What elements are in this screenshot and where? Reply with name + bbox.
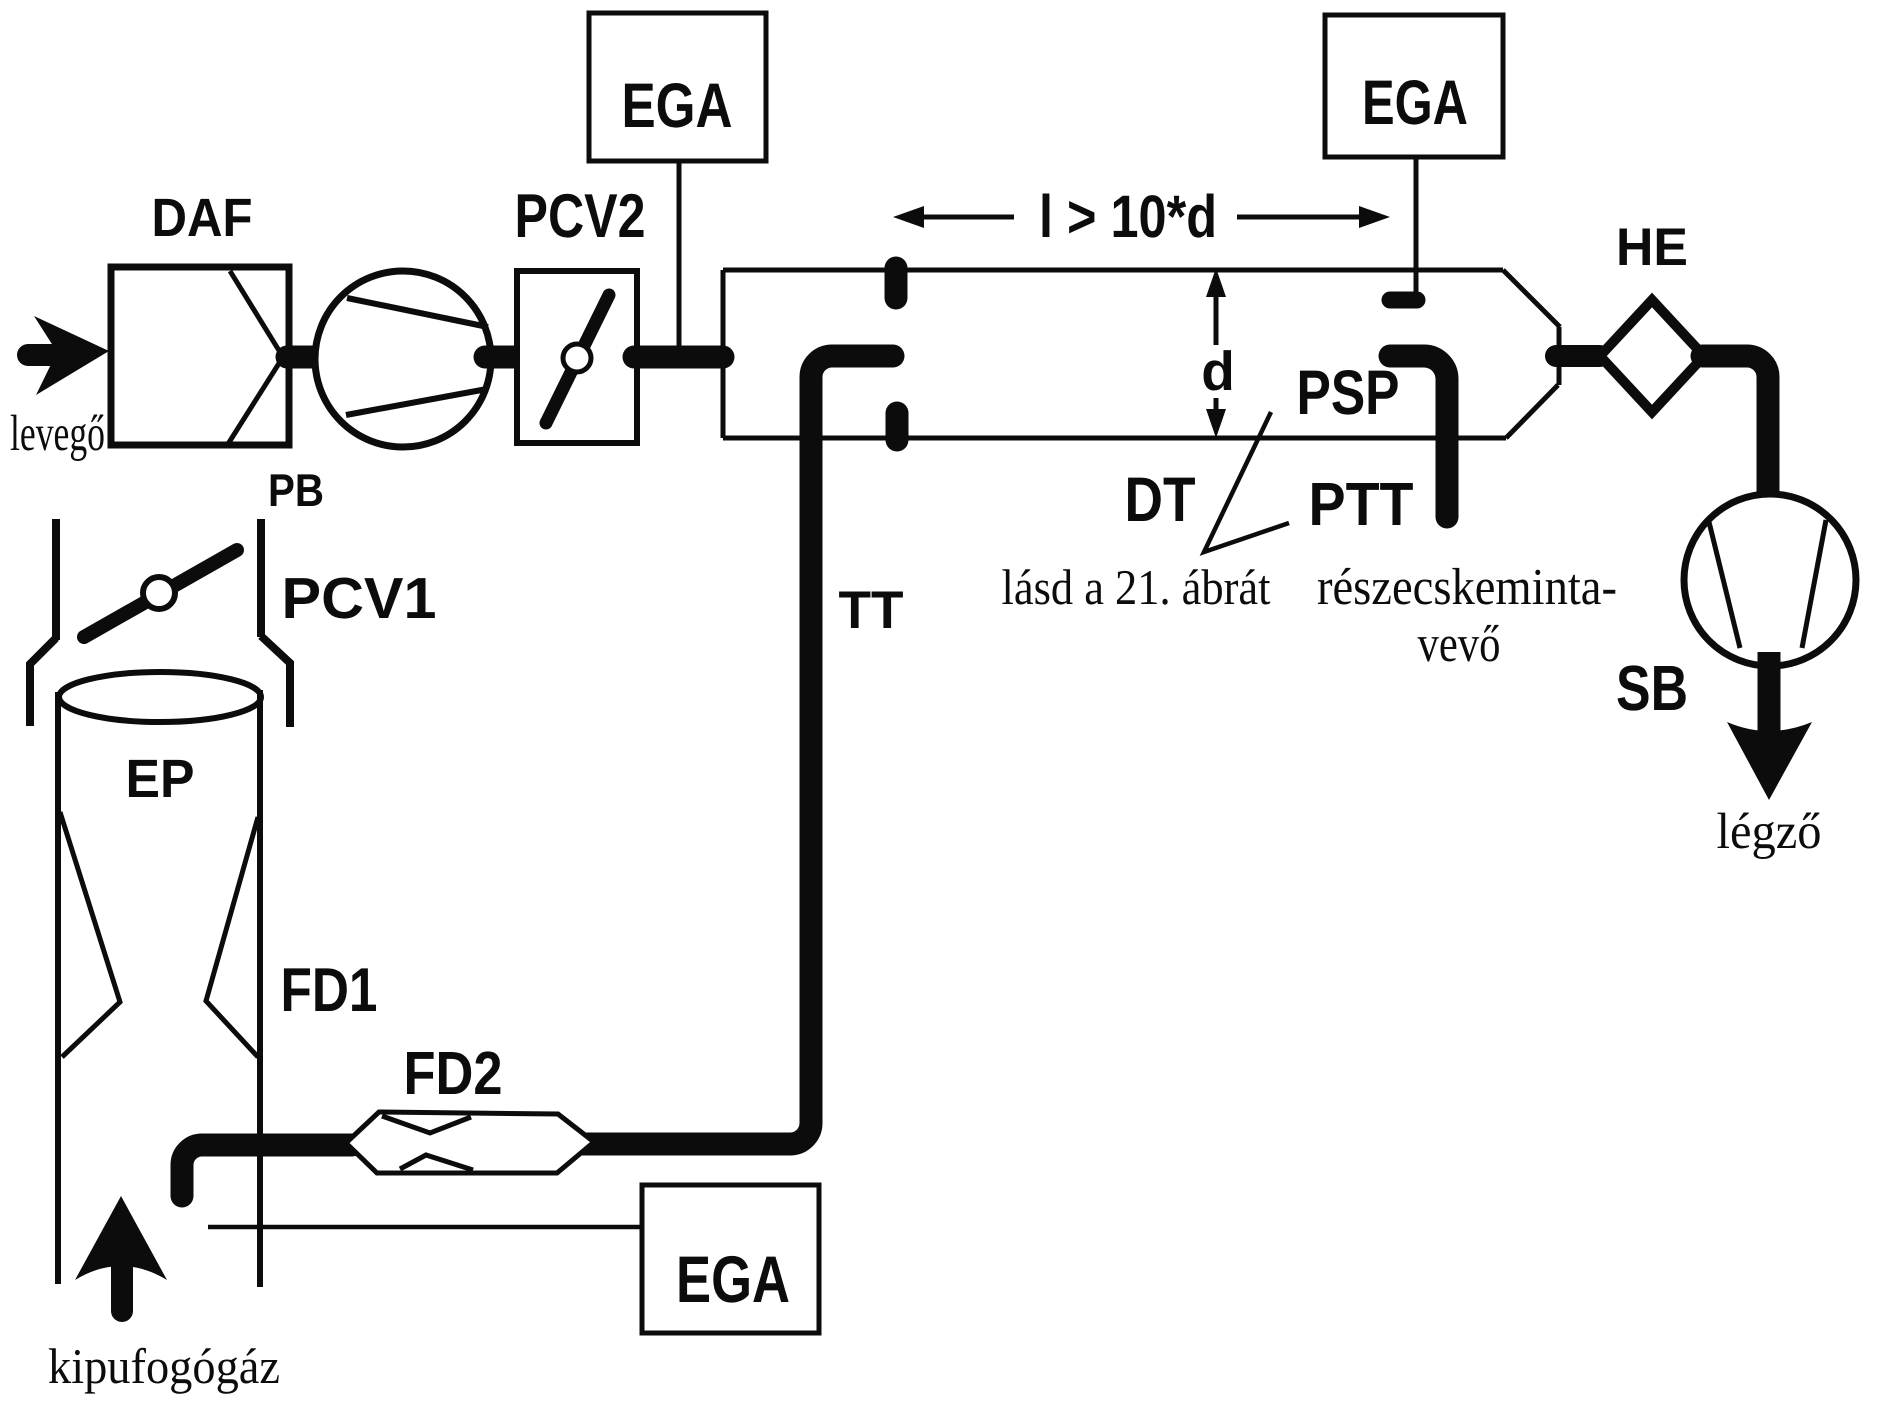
svg-text:FD1: FD1	[281, 956, 378, 1025]
analyzer EGA box 3	[642, 1185, 819, 1333]
svg-text:EP: EP	[126, 749, 195, 809]
analyzer EGA box 2	[1325, 15, 1503, 157]
svg-text:EGA: EGA	[676, 1242, 790, 1316]
outlet arrow to vent	[1727, 652, 1812, 800]
exhaust pipe EP top ellipse	[59, 672, 261, 722]
probe dash EGA2	[1390, 292, 1417, 309]
blower SB	[1684, 494, 1856, 666]
venturi FD1 lines	[60, 812, 258, 1057]
exhaust pipe EP walls	[58, 690, 260, 1287]
svg-text:PSP: PSP	[1297, 358, 1400, 428]
analyzer EGA box 1	[589, 13, 766, 161]
mixing orifice dash upper	[885, 268, 908, 298]
svg-text:FD2: FD2	[404, 1039, 503, 1107]
filter DAF box	[111, 267, 289, 445]
pipe HE to SB	[1702, 356, 1768, 502]
blower PB	[315, 271, 491, 447]
dimension arrow l>10*d	[893, 206, 1390, 228]
svg-text:l > 10*d: l > 10*d	[1039, 183, 1217, 250]
exhaust stack upper walls	[30, 519, 290, 727]
svg-text:TT: TT	[839, 581, 904, 640]
exhaust elbow pipe to FD2	[182, 1145, 352, 1196]
svg-text:EGA: EGA	[1362, 68, 1468, 138]
pipe PB to PCV2	[485, 346, 519, 369]
svg-text:kipufogógáz: kipufogógáz	[48, 1338, 280, 1394]
pipe DAF to PB	[287, 346, 313, 369]
svg-text:vevő: vevő	[1418, 616, 1501, 673]
callout line to figure 21	[1204, 412, 1289, 552]
valve PCV1	[84, 550, 237, 637]
svg-text:SB: SB	[1616, 652, 1688, 724]
heat exchanger HE diamond	[1600, 300, 1704, 412]
svg-text:lásd a 21. ábrát: lásd a 21. ábrát	[1002, 559, 1271, 615]
svg-text:EGA: EGA	[622, 71, 733, 141]
svg-text:PCV2: PCV2	[515, 182, 646, 251]
svg-text:HE: HE	[1616, 218, 1688, 277]
exhaust gas inlet arrow	[75, 1196, 167, 1311]
svg-text:részecskeminta-: részecskeminta-	[1317, 559, 1617, 616]
transfer tube TT pipe	[581, 356, 893, 1144]
svg-text:DAF: DAF	[152, 188, 253, 248]
venturi FD2	[346, 1112, 594, 1173]
dimension arrow d	[1206, 268, 1226, 438]
sample probe PSP pipe	[1390, 356, 1447, 517]
valve PCV2 box	[517, 271, 637, 443]
mixing orifice dash lower	[886, 413, 909, 440]
svg-text:levegő: levegő	[10, 406, 105, 462]
svg-text:PCV1: PCV1	[282, 566, 437, 631]
dilution tunnel DT outline	[723, 270, 1560, 438]
svg-text:légző: légző	[1717, 804, 1822, 860]
pipe tunnel to HE	[1556, 345, 1600, 367]
svg-text:d: d	[1201, 340, 1235, 402]
svg-text:DT: DT	[1125, 465, 1196, 535]
inlet air arrow (levego)	[28, 316, 109, 395]
pipe PCV2 to tunnel	[634, 346, 723, 369]
svg-text:PB: PB	[268, 464, 324, 516]
sense line EGA1	[677, 161, 682, 350]
sense line EGA2	[1414, 157, 1419, 296]
svg-text:PTT: PTT	[1309, 470, 1414, 538]
sense line to EGA3	[208, 1225, 644, 1230]
